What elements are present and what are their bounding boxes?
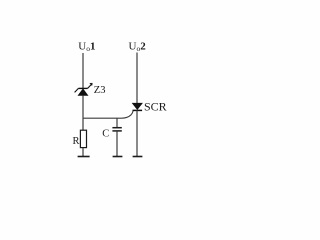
capacitor C bbox=[112, 128, 121, 131]
ground bar under R bbox=[78, 156, 90, 158]
wire from resistor to ground bbox=[82, 148, 84, 157]
ground bar under SCR bbox=[133, 156, 143, 158]
resistor R bbox=[80, 130, 86, 147]
svg-text:Z3: Z3 bbox=[94, 85, 106, 96]
svg-text:Uo2: Uo2 bbox=[129, 41, 147, 54]
wire left vertical from Uo1 to zener cathode bbox=[82, 53, 84, 89]
wire capacitor top stub bbox=[116, 118, 118, 127]
svg-text:SCR: SCR bbox=[144, 100, 167, 114]
zener diode Z3 bbox=[75, 83, 93, 95]
wire capacitor bottom stub bbox=[116, 131, 118, 157]
svg-text:R: R bbox=[73, 136, 80, 147]
wire left vertical from zener anode to resistor bbox=[82, 95, 84, 130]
wire right vertical from Uo2 to SCR anode bbox=[136, 53, 138, 104]
svg-text:C: C bbox=[102, 129, 109, 140]
svg-text:Uo1: Uo1 bbox=[78, 41, 95, 54]
wire horizontal from left branch curving up to SCR gate bbox=[83, 111, 133, 119]
ground bar under C bbox=[113, 156, 123, 158]
wire from SCR cathode to ground bbox=[136, 110, 138, 156]
SCR thyristor bbox=[133, 103, 143, 110]
